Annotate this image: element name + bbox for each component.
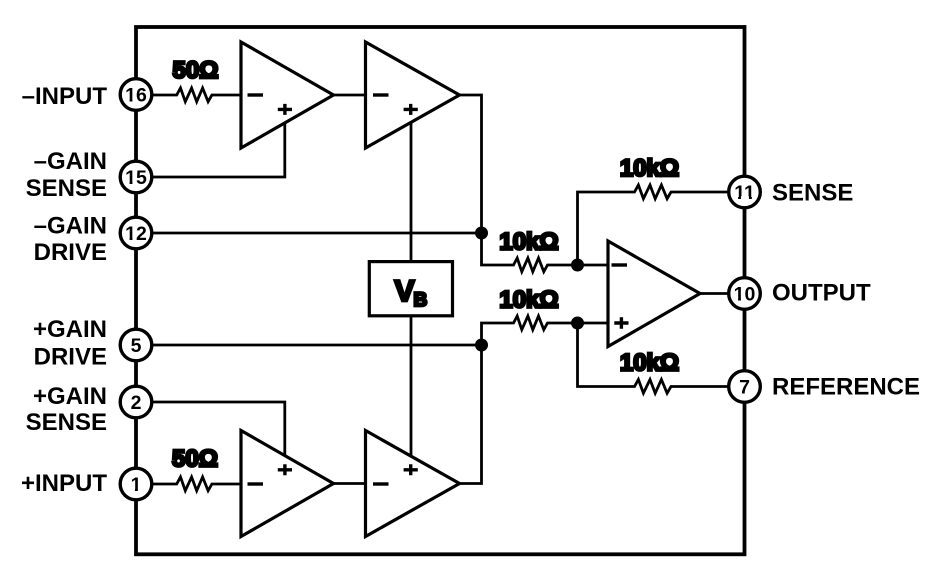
op-amp A3 (bottom input buffer) [241,431,334,537]
svg-text:50Ω: 50Ω [172,446,218,473]
A4 plus input mark [404,464,418,475]
wire pin2 to A3 plus input [152,402,285,456]
A1 plus input mark [278,104,292,115]
wire pin1 to A3 with resistor 50ohm [152,477,241,491]
svg-text:B: B [414,290,428,311]
pin 11 terminal circle [729,176,761,208]
wire A2 plus input to VB top [410,122,413,263]
A3 minus input mark [248,482,264,485]
svg-text:REFERENCE: REFERENCE [772,374,920,401]
svg-text:2: 2 [131,392,142,414]
pin 12 terminal circle [120,217,152,249]
svg-text:15: 15 [125,167,147,189]
svg-text:–INPUT: –INPUT [22,83,108,110]
svg-text:DRIVE: DRIVE [34,239,107,266]
svg-text:10kΩ: 10kΩ [499,229,558,256]
svg-text:11: 11 [734,182,755,204]
IC package outline [136,27,745,554]
svg-text:–GAIN: –GAIN [34,213,107,240]
svg-text:10: 10 [734,284,756,306]
pin 10 terminal circle [729,278,761,310]
svg-text:SENSE: SENSE [26,409,107,436]
svg-text:SENSE: SENSE [26,175,107,202]
wire with 10k resistor to pin7 REFERENCE [578,323,729,393]
wire A2 output down to 10k resistor into op-amp U1 minus [460,95,609,272]
wire VB bottom to A4 plus input [410,314,413,456]
wire pin16 to A1 with resistor 50ohm [152,88,241,102]
svg-text:12: 12 [125,223,147,245]
wire A1 output to A2 input [334,94,366,97]
A1 minus input mark [248,93,264,96]
svg-text:7: 7 [739,377,750,399]
svg-text:V: V [395,275,415,308]
op-amp A1 (top input buffer) [241,42,334,148]
op-amp A4 (bottom gain stage) [366,431,460,537]
pin 7 terminal circle [729,371,761,403]
A4 minus input mark [373,482,389,485]
node A junction dot [475,227,488,240]
U1 minus input mark [612,263,628,266]
wire pin15 to A1 plus input [152,123,285,177]
svg-text:OUTPUT: OUTPUT [772,280,871,307]
wire U1 output to pin10 [700,292,729,295]
svg-text:–GAIN: –GAIN [34,148,107,175]
svg-text:1: 1 [131,474,142,496]
svg-text:10kΩ: 10kΩ [499,287,558,314]
digit-1 serif trim masks [125,99,129,102]
pin 5 terminal circle [120,329,152,361]
svg-text:+GAIN: +GAIN [33,316,107,343]
svg-text:SENSE: SENSE [772,180,853,207]
wire pin5 to node B [152,344,482,347]
svg-text:10kΩ: 10kΩ [620,350,679,377]
U1 plus input mark [614,317,628,328]
pin 16 terminal circle [120,79,152,111]
svg-text:10kΩ: 10kΩ [620,155,679,182]
feedback wire with 10k resistor to pin11 SENSE [578,185,729,265]
node B junction dot [475,339,488,352]
U1 plus node junction dot [571,317,584,330]
svg-text:16: 16 [125,85,147,107]
svg-text:5: 5 [131,335,142,357]
pin 15 terminal circle [120,161,152,193]
svg-text:DRIVE: DRIVE [34,344,107,371]
wire A4 output up to 10k resistor into op-amp U1 plus [460,316,609,484]
op-amp A2 (top gain stage) [366,42,460,148]
U1 minus node junction dot [571,259,584,272]
svg-text:50Ω: 50Ω [173,57,219,84]
A2 plus input mark [404,104,418,115]
pin 2 terminal circle [120,386,152,418]
pin 1 terminal circle [120,468,152,500]
wire pin12 to node A [152,232,482,235]
A2 minus input mark [373,93,389,96]
A3 plus input mark [278,464,292,475]
svg-text:+INPUT: +INPUT [21,470,107,497]
wire A3 output to A4 input [334,482,366,485]
svg-text:+GAIN: +GAIN [33,383,107,410]
VB bias source box [369,262,452,316]
op-amp U1 (output amplifier) [608,241,700,347]
